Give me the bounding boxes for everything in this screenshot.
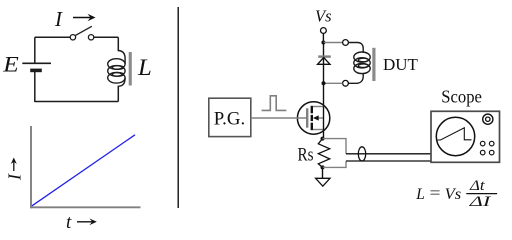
svg-text:Vs: Vs [445,186,462,203]
wire right side [117,37,119,101]
wire DUT bottom terminal to node B [324,82,343,84]
wire MOSFET right vertical drain-source [323,107,325,139]
MOSFET Q1 source stub [313,129,324,131]
node A junction dot [321,41,325,45]
wire DUT coil to bottom terminal [348,73,363,83]
DUT core bar [372,48,375,81]
scope lead top [346,153,431,155]
switch S1 [70,26,94,40]
node B junction dot [322,81,326,85]
graph x label t arrow [66,212,97,233]
scope box [431,111,500,162]
graph axes [30,126,141,208]
graph blue current ramp [32,135,135,206]
wire node A to DUT top terminal [323,42,342,44]
pulse waveform symbol [262,96,287,111]
inductor L coil [108,51,125,87]
svg-text:Vs: Vs [315,6,332,25]
wire Vs to node A [322,34,324,43]
scope screen waveform [438,128,472,140]
svg-text:Δt: Δt [469,178,486,194]
formula L = Vs dt/dI [415,178,497,210]
label Rs [298,146,314,166]
svg-text:t: t [66,212,72,233]
wire bottom left circuit [35,101,119,103]
scope lead bottom [346,160,431,162]
ground symbol [316,178,330,186]
MOSFET Q1 circle [297,102,329,134]
svg-text:=: = [430,185,441,202]
svg-text:Scope: Scope [441,87,482,107]
label Scope [441,87,482,107]
scope knob double circle [483,114,493,124]
inductor L core bar [129,52,132,86]
wire node A through diode to node B [323,43,325,84]
resistor Rs zigzag [318,139,329,168]
label E [2,52,19,77]
svg-text:P.G.: P.G. [214,109,245,130]
MOSFET Q1 gate bar [306,108,308,127]
MOSFET Q1 channel segments [311,106,313,130]
wire left side [34,37,36,102]
scope screen circle [436,117,474,155]
svg-text:I: I [5,173,25,181]
separator line [177,7,179,208]
label I arrow (current direction, left circuit) [54,7,96,31]
wire P.G. to MOSFET gate [251,117,306,119]
battery E [22,63,51,70]
wire DUT top terminal to coil [348,43,363,53]
ground wire [322,167,324,178]
node C junction dot (top of Rs) [321,137,325,141]
svg-text:Rs: Rs [298,146,314,166]
svg-text:L: L [137,55,152,80]
label DUT [383,55,419,74]
svg-text:L: L [415,186,425,203]
svg-text:ΔI: ΔI [468,194,492,210]
graph y label I arrow [5,158,25,182]
svg-text:I: I [54,7,63,31]
DUT inductor coil [354,52,370,74]
diode D1 cathode bar [318,55,331,57]
wire node D to probe lead bottom [323,161,347,167]
label Vs [315,6,332,25]
DUT bottom terminal [343,80,349,86]
terminal Vs [321,28,327,34]
node D junction dot (bottom of Rs) [321,165,325,169]
DUT top terminal [343,40,349,46]
MOSFET Q1 body stub and arrow [313,115,324,120]
svg-text:E: E [2,52,19,77]
scope input jacks [480,141,494,155]
svg-text:DUT: DUT [383,55,419,74]
P.G. pulse generator box [209,98,251,136]
current probe loop [358,147,365,161]
wire node C to probe lead top [323,139,347,154]
diode D1 triangle [318,58,331,65]
wire node B to MOSFET drain [323,83,325,106]
label L [137,55,152,80]
wire top left circuit [35,36,119,38]
MOSFET Q1 drain stub [313,106,324,108]
